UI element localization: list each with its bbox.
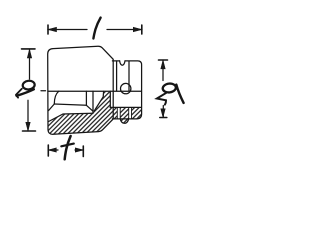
drive cylinder outline (112, 61, 141, 119)
hex bore cone diagonal (86, 105, 93, 111)
hex bore mouth lower chamfer diagonal (49, 104, 55, 111)
hex bore mouth chamfer arc (54, 91, 59, 104)
hatch: below square hole left chunk (113, 107, 117, 119)
label l stroke (93, 18, 100, 39)
dimension d1 bottom tick (23, 130, 36, 132)
hatch: below square hole middle chunk with lobe (120, 107, 129, 123)
label d2 subscript 2 (157, 93, 166, 105)
cross hole circle (121, 83, 131, 93)
label d1 subscript 1 (16, 89, 22, 98)
dimension t left tick (47, 145, 49, 156)
ball groove dip (120, 61, 125, 65)
label t crossbar (61, 144, 74, 147)
dimension t right tick (82, 146, 84, 157)
hatch: below square hole right chunk (132, 107, 142, 119)
shoulder feature line (116, 61, 118, 91)
label d1 stem (17, 89, 34, 96)
dimension d1 top arrowhead (27, 50, 31, 59)
notch edges below hole (117, 107, 131, 119)
dimension d2 top tick (159, 59, 168, 61)
bore cone silhouette diagonal (94, 91, 103, 111)
dimension d2 top arrowhead (161, 60, 165, 69)
square hole bottom edge (110, 106, 141, 108)
collar feature line (128, 61, 130, 91)
centerline dash left of body (41, 90, 46, 92)
dimension d1 line (28, 49, 30, 131)
label d2 bowl (162, 83, 176, 93)
square hole left wall (109, 91, 111, 107)
hex bore bottom boundary (49, 113, 93, 121)
dimension l left tick (47, 25, 49, 34)
dimension l left arrowhead (48, 27, 57, 31)
dimension d2 line (162, 60, 164, 117)
hex bore far edge vertical (85, 91, 87, 105)
label d2 stem (176, 85, 183, 103)
hatch: body bottom band and neck section (48, 92, 113, 135)
groove mirrored lobe outline (120, 119, 129, 123)
label t main stroke (65, 136, 71, 159)
dimension d2 bottom arrowhead (161, 109, 165, 118)
dimension t left arrowhead (48, 148, 56, 152)
dimension l line (48, 29, 142, 31)
label d1 bowl (22, 80, 35, 90)
hex bore end vertical (92, 91, 94, 113)
socket body outline (48, 46, 114, 134)
dimension d1 top tick (22, 48, 36, 50)
section centerline edge (48, 90, 141, 92)
dimension t right arrowhead (75, 148, 83, 152)
dimension d2 bottom tick (160, 117, 167, 119)
dimension t line (48, 149, 83, 151)
dimension l right arrowhead (133, 27, 142, 31)
dimension d1 bottom arrowhead (26, 122, 30, 131)
hex bore upper flat line (54, 104, 86, 105)
dimension l right tick (141, 25, 143, 34)
